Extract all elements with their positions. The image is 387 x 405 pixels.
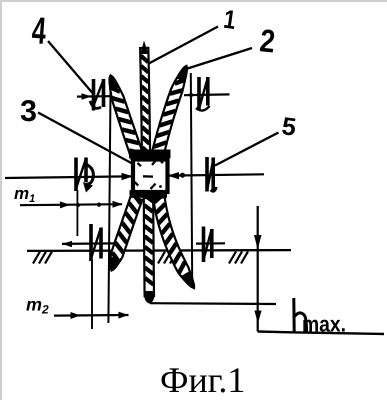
wire: bottom reference line from shaft tip [150,302,276,305]
bearing (top-left, pos 4) [90,79,104,111]
arrow onto square right side [168,172,180,179]
dimension m2 line [54,314,129,317]
hmax upper down-arrow [254,235,262,250]
ground hatch group left [33,252,40,264]
leader to label 5 [215,133,279,166]
m1 dot 1 [76,203,80,207]
svg-text:m2: m2 [26,295,49,317]
hub inner hatch marks [135,160,156,189]
svg-text:m1: m1 [14,184,35,205]
arrow on top-left bearing axis [82,93,92,100]
hmax lower down-arrow [254,311,261,324]
wire: lower-left bearing axis [62,242,114,245]
leader to label 3 [38,113,134,165]
arrow onto square left side [122,173,134,180]
hub square U3 [133,160,168,193]
hub top black band [129,150,171,159]
lower shaft rounded tip [144,291,155,304]
bearing (lower-right) [204,227,212,263]
bearing (lower-left) [91,224,101,261]
upper shaft (hatched) [140,48,150,157]
right blade (hatched) [150,66,187,162]
m1 arrow 1 [60,201,70,208]
label h max [294,298,307,332]
ground hatch group middle [158,252,165,264]
wire: center horizontal axis right part [169,174,265,175]
bearing (middle-left) [76,158,93,193]
svg-text:Фиг.1: Фиг.1 [160,360,245,400]
leader to label 4 [48,41,93,93]
hub inner dot 1 [161,161,164,164]
ground hatch group right [229,252,236,264]
leader to label 1 [146,27,218,66]
leader to label 2 [188,48,253,69]
wire: left blade chord vertical (x~110) [108,80,110,323]
svg-text:max.: max. [302,312,346,337]
arrow on lower-left axis [62,241,72,247]
wire: top-right bearing axis [184,93,230,96]
svg-text:5: 5 [280,112,298,142]
m1 arrow 2 [113,201,123,208]
hmax baseline under text [258,332,384,335]
hub bottom black band [130,190,168,198]
node dot on center axis [180,173,185,178]
svg-text:2: 2 [258,22,277,59]
svg-text:1: 1 [222,4,238,35]
bearing (top-right, pos 2 shaft) [196,77,210,111]
dimension m1 line [20,204,122,205]
lower-right leg (hatched) [153,197,194,288]
hmax vertical dimension line [257,206,259,332]
wire: center horizontal axis left part [5,176,131,178]
svg-text:3: 3 [20,95,37,128]
lower shaft (hatched) [144,198,154,296]
left blade (hatched) [110,76,144,160]
m2 arrow 2 [119,312,129,319]
m1 dot 2 [97,203,101,207]
svg-text:4: 4 [30,10,47,53]
node dot at chord crossing [189,93,193,97]
wire: top-left bearing axis [77,95,110,98]
wire: short vertical under left middle bearing (x~77) [76,190,78,236]
m2 arrow 1 [71,312,81,319]
ground reference line [27,249,291,252]
wire: right blade chord vertical (x~191) [191,73,192,280]
hub inner dot 2 [159,185,162,188]
wire: lower-right bearing axis [196,242,225,245]
wire: vertical under lower-left bearing (x~92) [91,260,93,329]
bearing (middle-right, pos 5) [207,157,217,192]
lower-left leg (hatched) [110,196,142,271]
upper shaft pointed tip [140,41,148,55]
